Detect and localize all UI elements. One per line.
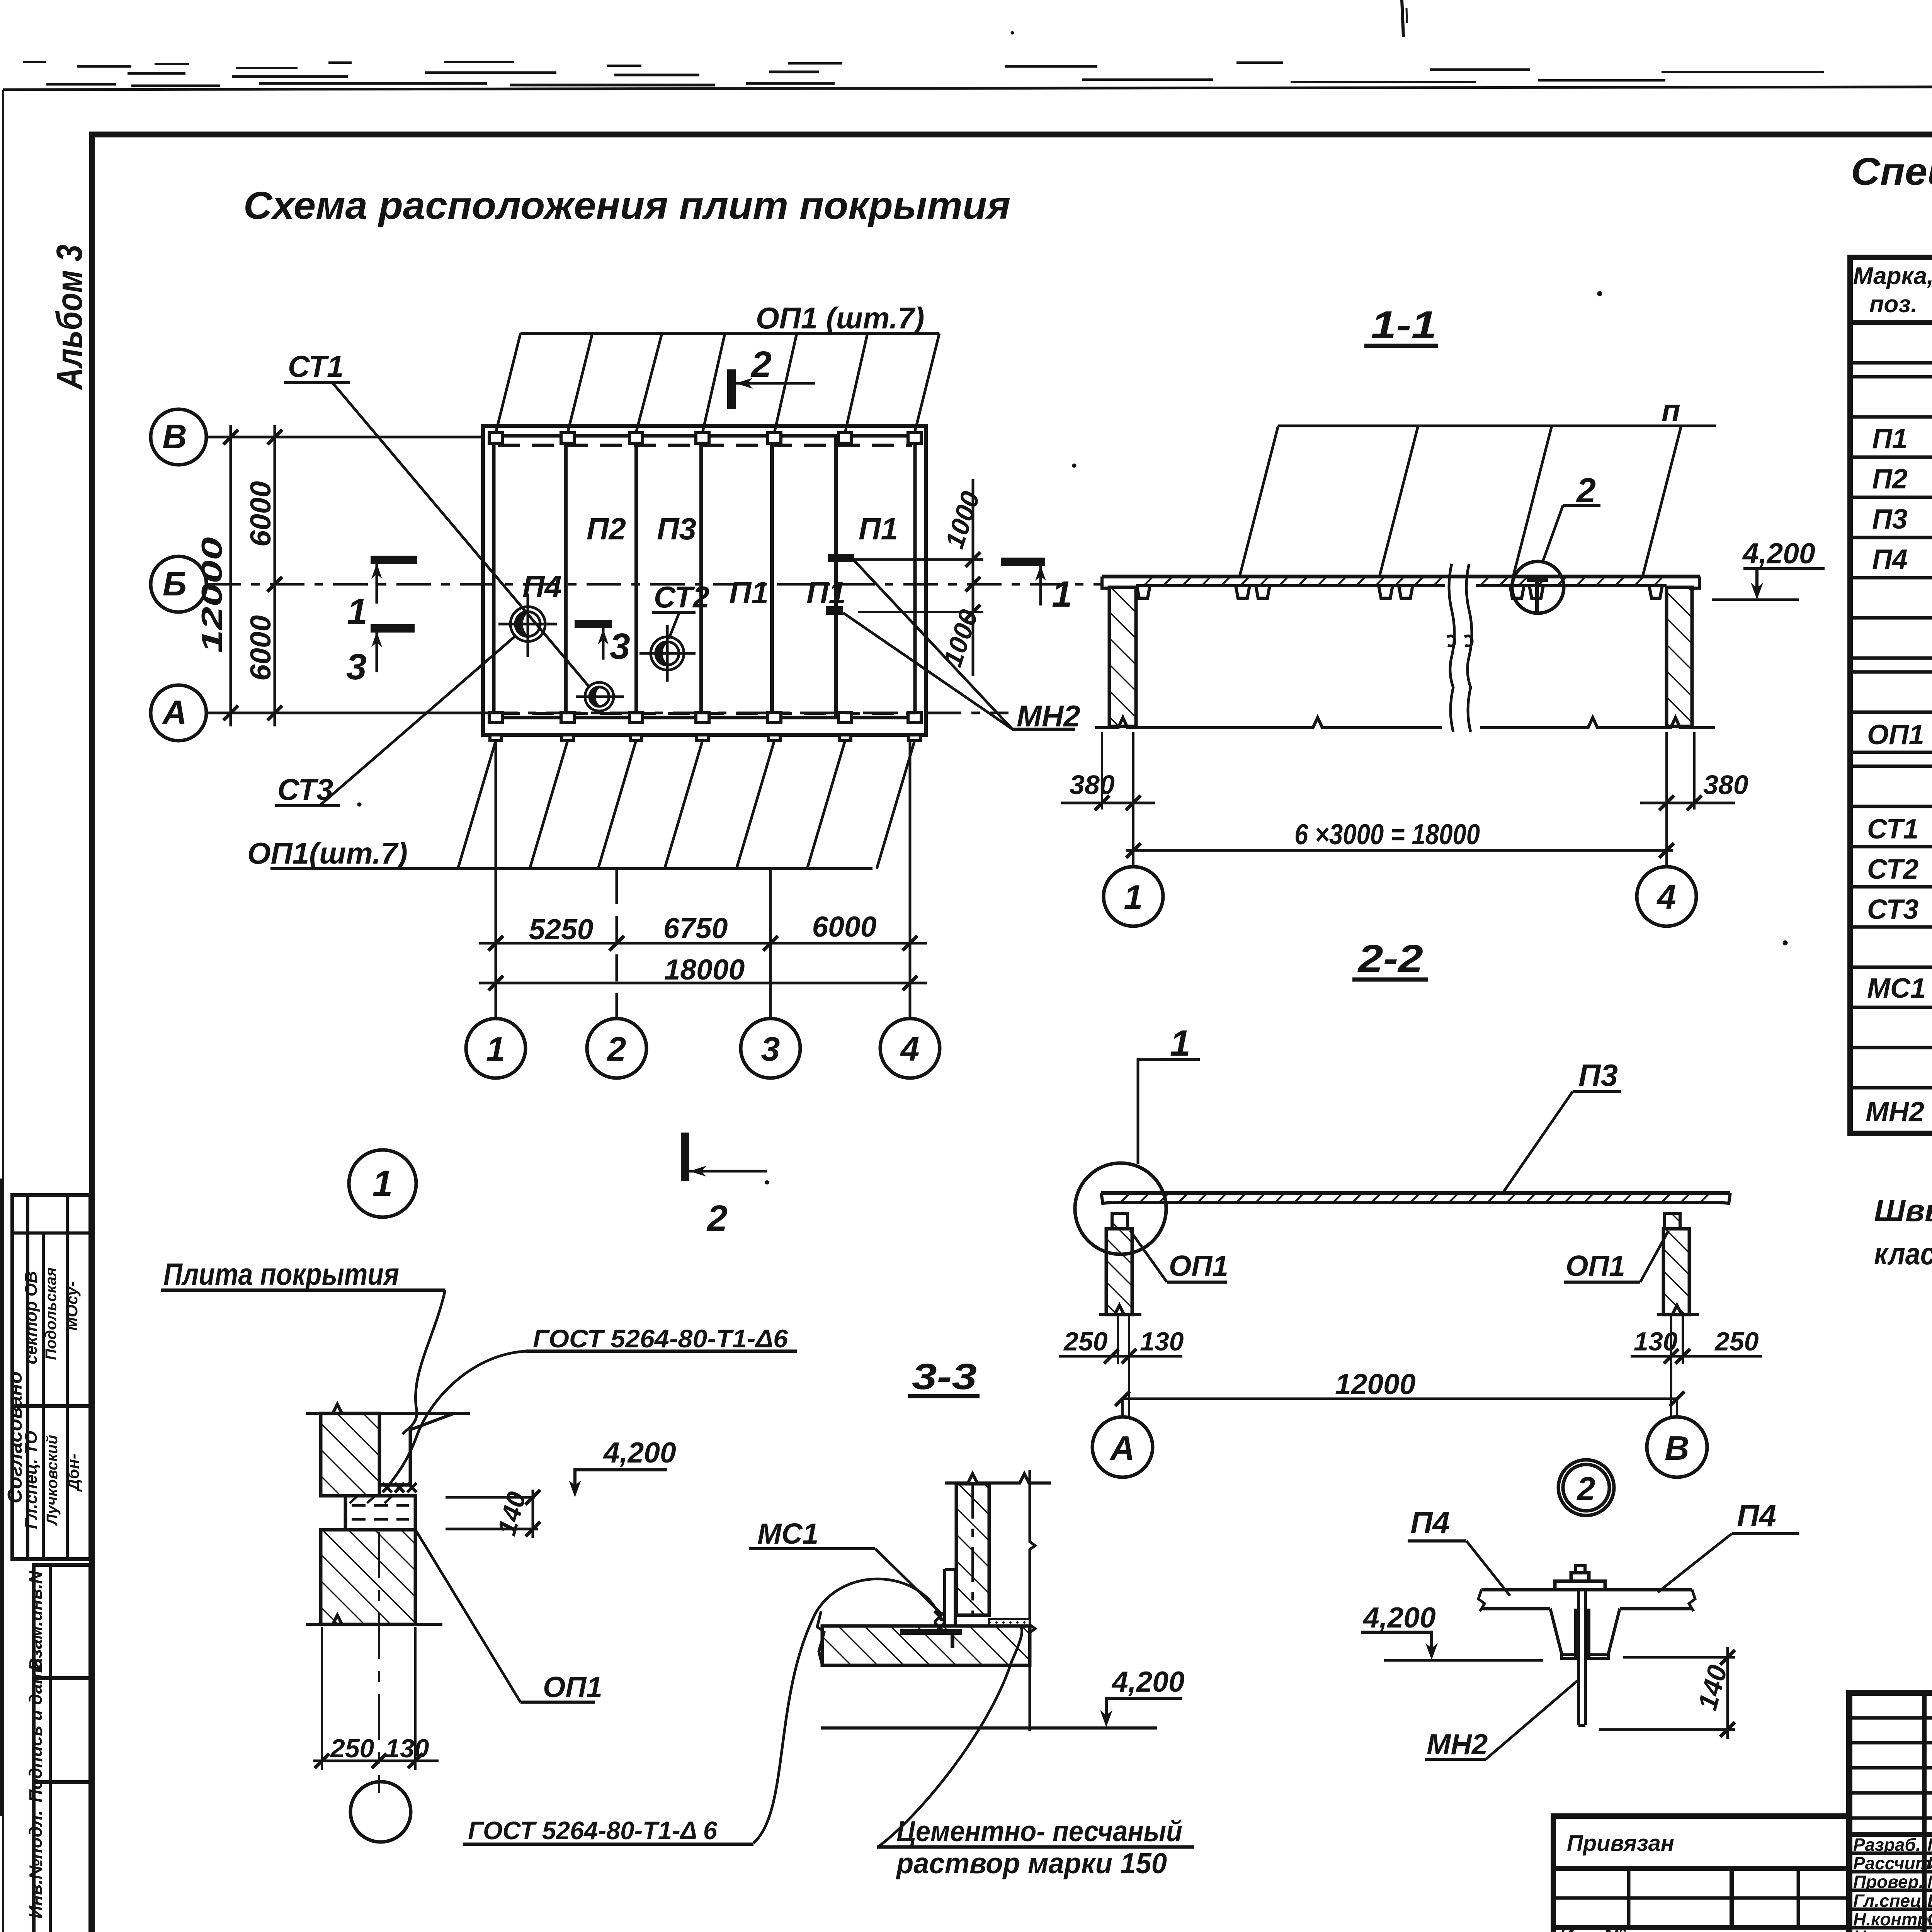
svg-text:Иволженко: Иволженко — [1927, 1853, 1932, 1873]
svg-text:1: 1 — [347, 591, 367, 632]
svg-text:Подпись и дата: Подпись и дата — [26, 1658, 46, 1803]
svg-text:А: А — [162, 693, 187, 731]
svg-text:4,200: 4,200 — [1111, 1665, 1185, 1698]
svg-text:6000: 6000 — [244, 615, 277, 681]
svg-text:класса В 15 на мелком запо: класса В 15 на мелком заполнителе. — [1874, 1236, 1932, 1271]
svg-text:Взам.инв.N: Взам.инв.N — [26, 1571, 46, 1671]
svg-text:СТ1: СТ1 — [1867, 814, 1918, 845]
svg-text:МС1: МС1 — [1867, 973, 1926, 1004]
svg-text:СТ3: СТ3 — [1867, 894, 1918, 925]
svg-text:ОП1: ОП1 — [1169, 1250, 1228, 1282]
svg-text:Плита покрытия: Плита покрытия — [163, 1257, 399, 1291]
svg-text:4,200: 4,200 — [1362, 1601, 1436, 1634]
svg-text:Разраб.: Разраб. — [1853, 1835, 1921, 1855]
svg-text:1: 1 — [372, 1163, 393, 1204]
svg-text:СТ2: СТ2 — [654, 580, 709, 614]
svg-text:12000: 12000 — [1335, 1368, 1416, 1400]
svg-text:П3: П3 — [657, 512, 696, 546]
svg-text:Инв.№подл.: Инв.№подл. — [26, 1810, 46, 1918]
svg-text:МОсу-: МОсу- — [63, 1281, 81, 1331]
svg-text:Шейко: Шейко — [1927, 1927, 1932, 1932]
svg-text:Власенко: Власенко — [1927, 1891, 1932, 1911]
svg-text:П4: П4 — [1872, 544, 1908, 575]
svg-text:250: 250 — [1714, 1327, 1759, 1356]
svg-text:сектор ОВ: сектор ОВ — [22, 1271, 41, 1364]
svg-text:2: 2 — [607, 1030, 626, 1068]
svg-text:130: 130 — [385, 1734, 429, 1763]
svg-text:3-3: 3-3 — [912, 1356, 977, 1397]
svg-text:Нач.отд.: Нач.отд. — [1853, 1927, 1932, 1932]
svg-text:П1: П1 — [806, 575, 846, 610]
svg-text:250: 250 — [1063, 1327, 1108, 1356]
svg-text:6750: 6750 — [663, 912, 728, 944]
svg-text:СТ1: СТ1 — [288, 349, 344, 383]
svg-text:Лучковский: Лучковский — [44, 1435, 61, 1526]
svg-text:П3: П3 — [1578, 1058, 1618, 1092]
svg-text:МС1: МС1 — [757, 1517, 818, 1550]
svg-text:Швы между плитами заполнить: Швы между плитами заполнить бетоном — [1874, 1193, 1932, 1228]
svg-text:ГОСТ 5264-80-Т1-Δ 6: ГОСТ 5264-80-Т1-Δ 6 — [468, 1816, 718, 1845]
svg-text:СТ3: СТ3 — [277, 772, 333, 806]
svg-text:2: 2 — [1576, 1471, 1595, 1507]
svg-text:МН2: МН2 — [1866, 1097, 1924, 1128]
svg-text:П4: П4 — [1737, 1498, 1776, 1533]
svg-text:4: 4 — [900, 1030, 920, 1068]
svg-text:ОП1 (шт.7): ОП1 (шт.7) — [756, 301, 925, 335]
svg-text:2: 2 — [1576, 471, 1596, 510]
svg-text:1: 1 — [486, 1030, 505, 1068]
svg-text:ОП1: ОП1 — [543, 1671, 602, 1703]
svg-text:130: 130 — [1634, 1327, 1678, 1356]
svg-text:1: 1 — [1052, 574, 1072, 615]
svg-text:А: А — [1109, 1429, 1135, 1467]
svg-text:Подольская: Подольская — [43, 1267, 60, 1360]
svg-text:Гл.спец. ТО: Гл.спец. ТО — [22, 1431, 41, 1529]
svg-text:4,200: 4,200 — [603, 1436, 676, 1469]
svg-text:1-1: 1-1 — [1371, 303, 1437, 347]
svg-text:130: 130 — [1140, 1327, 1184, 1356]
svg-text:5250: 5250 — [529, 913, 594, 946]
svg-text:3: 3 — [610, 626, 630, 667]
svg-text:ОП1: ОП1 — [1566, 1250, 1625, 1282]
svg-text:П4: П4 — [1410, 1505, 1450, 1540]
svg-text:Цементно- песчаный: Цементно- песчаный — [896, 1815, 1182, 1847]
svg-text:П1: П1 — [859, 512, 898, 546]
svg-text:В: В — [1665, 1429, 1689, 1467]
svg-text:250: 250 — [330, 1734, 374, 1763]
svg-text:380: 380 — [1070, 770, 1115, 800]
svg-text:Мазалова: Мазалова — [1927, 1872, 1932, 1892]
svg-text:П1: П1 — [1872, 423, 1908, 454]
svg-text:380: 380 — [1703, 770, 1748, 800]
svg-text:2: 2 — [750, 344, 772, 385]
svg-text:Схема расположения плит покрыт: Схема расположения плит покрытия — [243, 184, 1010, 227]
svg-text:6000: 6000 — [812, 910, 877, 943]
svg-text:Инв.N°: Инв.N° — [1559, 1925, 1626, 1932]
svg-text:Гл.спец.: Гл.спец. — [1853, 1891, 1927, 1911]
svg-text:4,200: 4,200 — [1742, 537, 1815, 570]
svg-text:МН2: МН2 — [1017, 699, 1080, 733]
svg-text:П2: П2 — [587, 512, 626, 546]
svg-text:ОП1: ОП1 — [1867, 719, 1924, 750]
svg-text:ГОСТ 5264-80-Т1-Δ6: ГОСТ 5264-80-Т1-Δ6 — [533, 1324, 788, 1353]
svg-text:Рассчит: Рассчит — [1853, 1853, 1931, 1873]
svg-text:Альбом 3: Альбом 3 — [49, 245, 90, 390]
svg-text:1: 1 — [1124, 878, 1143, 916]
svg-text:В: В — [162, 417, 187, 456]
svg-text:3: 3 — [346, 646, 367, 687]
svg-text:6 ×3000 = 18000: 6 ×3000 = 18000 — [1294, 818, 1480, 850]
svg-text:Б: Б — [163, 565, 187, 603]
svg-text:Дбн-: Дбн- — [64, 1454, 82, 1492]
svg-text:12000: 12000 — [196, 537, 228, 653]
svg-text:2: 2 — [706, 1198, 728, 1239]
svg-text:МН2: МН2 — [1427, 1728, 1488, 1760]
svg-text:раствор марки 150: раствор марки 150 — [896, 1847, 1167, 1879]
svg-text:ОП1(шт.7): ОП1(шт.7) — [247, 836, 408, 870]
svg-text:Спецификация к схеме расположе: Спецификация к схеме расположения — [1851, 150, 1932, 193]
svg-text:6000: 6000 — [244, 481, 277, 547]
svg-text:2-2: 2-2 — [1357, 937, 1423, 980]
svg-text:Голосов: Голосов — [1927, 1835, 1932, 1855]
svg-text:П3: П3 — [1872, 504, 1908, 535]
svg-text:П4: П4 — [522, 569, 562, 604]
svg-text:18000: 18000 — [664, 953, 745, 986]
svg-text:п: п — [1662, 393, 1680, 428]
svg-text:1: 1 — [1170, 1023, 1190, 1064]
svg-text:4: 4 — [1656, 878, 1676, 916]
svg-text:П1: П1 — [729, 575, 769, 610]
svg-text:П2: П2 — [1872, 464, 1908, 495]
svg-text:поз.: поз. — [1869, 291, 1918, 318]
svg-text:Марка,: Марка, — [1853, 263, 1932, 289]
svg-text:Провер.: Провер. — [1853, 1872, 1923, 1892]
svg-text:3: 3 — [761, 1030, 780, 1068]
svg-text:СТ2: СТ2 — [1867, 854, 1918, 885]
svg-text:Привязан: Привязан — [1567, 1831, 1674, 1856]
